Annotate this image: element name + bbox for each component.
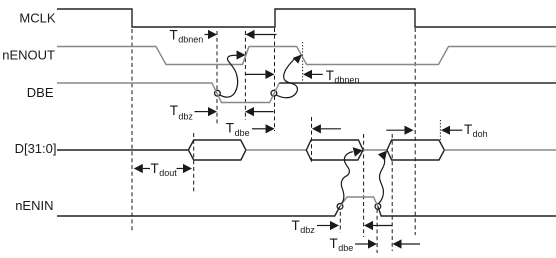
wire nENIN low right: [378, 206, 556, 216]
wire curved causal arrow DBE circle2 to nENOUT fall: [276, 58, 297, 98]
dimension arrow Tdout left: [134, 164, 143, 173]
wire dashed guide at bus3 drive x=392.2: [391, 134, 393, 251]
wire dashed guide at nENOUT rise x=245.4: [244, 31, 246, 120]
svg-text:T: T: [326, 68, 334, 83]
dimension arrow Tdbe1 right: [252, 128, 266, 130]
node DBE turn-off circle: [215, 90, 221, 96]
svg-text:T: T: [464, 122, 472, 137]
svg-text:dbnen: dbnen: [334, 75, 359, 85]
svg-text:T: T: [170, 27, 178, 42]
dimension arrow Tdbnen2 left: [303, 70, 312, 79]
svg-text:dbz: dbz: [300, 225, 315, 235]
wire dashed guide at MCLK rise x=274.5: [274, 28, 276, 131]
wire MCLK waveform: [57, 9, 556, 27]
dimension arrow Tdbz2 left: [364, 221, 373, 230]
wire dashed guide at bus2 end x=363.6: [363, 134, 365, 237]
wire D bus line hiZ 2: [363, 149, 387, 151]
node D bus valid hexagon 3: [387, 140, 444, 160]
wire DBE high right black: [279, 82, 556, 84]
dimension arrow Tdoh left: [441, 126, 450, 135]
svg-text:T: T: [330, 236, 338, 251]
wire dotted guide at nENOUT fall2 x=302.6: [302, 42, 304, 84]
svg-text:D[31:0]: D[31:0]: [15, 141, 57, 156]
dimension arrow Tdbe1 left: [312, 124, 321, 133]
svg-text:T: T: [170, 103, 178, 118]
dimension arrow Tdbz1 right: [195, 111, 209, 113]
svg-text:T: T: [292, 218, 300, 233]
wire curved causal arrow DBE circle1 to nENOUT rise: [220, 55, 238, 97]
dimension arrow Tdbnen1 right: [205, 34, 209, 36]
svg-text:doh: doh: [473, 129, 488, 139]
wire dotted guide at bus3 hold x=440.4: [439, 120, 441, 143]
wire D bus line hiZ 1: [246, 149, 306, 151]
svg-text:T: T: [226, 121, 234, 136]
dimension arrow Tdbnen2 right: [245, 73, 265, 75]
svg-text:MCLK: MCLK: [19, 10, 55, 25]
wire dashed guide at MCLK fall x=132: [131, 29, 133, 232]
svg-text:T: T: [151, 161, 159, 176]
svg-text:dbe: dbe: [338, 243, 353, 253]
wire nENIN rise upper part: [340, 197, 378, 206]
node nENIN turn-on circle: [375, 204, 381, 210]
svg-text:nENOUT: nENOUT: [2, 47, 55, 62]
node DBE turn-on circle: [271, 90, 277, 96]
svg-text:dbnen: dbnen: [178, 34, 203, 44]
wire curved causal arrow nENIN circle2 to hexagon3 start: [379, 157, 385, 204]
wire nENOUT waveform: [57, 47, 556, 65]
wire DBE waveform: [57, 83, 279, 103]
wire D bus line left: [57, 149, 188, 151]
wire nENIN low left: [57, 206, 340, 216]
wire dashed guide at DBE fall x=217: [216, 31, 218, 125]
svg-text:dout: dout: [159, 168, 177, 178]
wire D bus line right: [444, 149, 556, 151]
wire dashed guide at MCLK fall2 x=415.2: [414, 28, 416, 235]
wire dashed guide at nENIN circle2 x=377.1: [376, 209, 378, 253]
wire dashed guide at nENIN circle1 x=340.3: [339, 205, 341, 233]
dimension arrow Tdout right: [177, 168, 184, 170]
dimension arrow Tdbz2 right: [317, 225, 330, 227]
svg-text:dbe: dbe: [235, 128, 250, 138]
node nENIN turn-off circle: [337, 204, 343, 210]
dimension arrow Tdbe2 left: [393, 239, 402, 248]
node D bus valid hexagon 1: [188, 140, 246, 160]
node D bus valid hexagon 2: [306, 140, 363, 160]
dimension arrow Tdbnen1 left: [246, 30, 255, 39]
svg-text:dbz: dbz: [178, 111, 193, 121]
svg-text:DBE: DBE: [27, 85, 54, 100]
dimension arrow Tdbz1 left: [245, 107, 254, 116]
wire dashed guide at bus drive x=193.7: [193, 133, 195, 193]
wire dashed guide at bus2 drive x=311.5: [311, 117, 313, 162]
dimension arrow Tdbe2 right: [355, 243, 368, 245]
svg-text:nENIN: nENIN: [15, 198, 53, 213]
wire curved causal arrow nENIN circle1 to hexagon2 end: [341, 152, 353, 204]
dimension arrow Tdoh right: [386, 129, 404, 131]
